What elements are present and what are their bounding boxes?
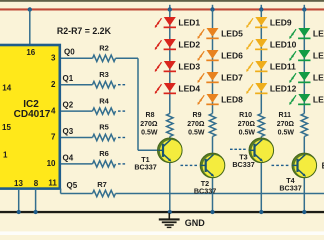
svg-text:0.5W: 0.5W <box>188 129 205 136</box>
wire IC2 pin 11 stub down <box>60 189 62 194</box>
svg-text:4: 4 <box>51 106 56 115</box>
resistor R3 <box>93 82 116 88</box>
svg-text:LED4: LED4 <box>178 84 200 94</box>
wire dotted base lead T2 <box>181 164 198 166</box>
wire resistor R10 to transistor T3 collector <box>260 137 262 139</box>
wire LED column 1 anode chain <box>169 10 171 114</box>
svg-text:2: 2 <box>51 80 56 89</box>
wire IC2 Q3 output <box>61 137 93 139</box>
node junction: LED column 4 to +V rail <box>302 7 306 11</box>
svg-text:14: 14 <box>2 84 11 93</box>
wire +V supply rail <box>0 8 324 10</box>
LED LED16 <box>289 94 310 105</box>
LED LED11 <box>246 61 267 72</box>
resistor R9 label block <box>187 112 205 136</box>
svg-text:LED2: LED2 <box>178 40 200 50</box>
resistor R11 label block <box>277 112 295 136</box>
resistor R6 <box>93 161 116 167</box>
wire IC2 Q2 output <box>61 110 93 112</box>
node junction pin8 on ground rail <box>34 210 38 214</box>
svg-text:LED3: LED3 <box>178 62 200 72</box>
svg-text:0.5W: 0.5W <box>239 129 256 136</box>
wire R6 continuation dots <box>118 163 125 165</box>
wire R2 to T1 base (horizontal) <box>116 57 139 59</box>
node junction T2 emitter on ground rail <box>210 210 214 214</box>
svg-text:BC337: BC337 <box>194 187 216 196</box>
transistor T3 BC337 <box>249 138 274 163</box>
svg-text:270Ω: 270Ω <box>238 121 256 128</box>
LED LED9 <box>246 17 267 28</box>
svg-text:LED15: LED15 <box>313 73 324 83</box>
svg-text:BC337: BC337 <box>134 162 156 171</box>
svg-text:Q1: Q1 <box>63 74 74 83</box>
svg-text:LED6: LED6 <box>221 51 243 61</box>
wire R7 to right edge <box>116 193 324 195</box>
wire Q0/R2 down to T1 base (vertical) <box>137 58 139 150</box>
svg-text:10: 10 <box>47 159 56 168</box>
svg-text:LED1: LED1 <box>178 18 200 28</box>
wire into T1 base <box>138 149 159 151</box>
wire stubs above supply rail <box>170 5 304 10</box>
svg-text:BC337: BC337 <box>279 183 301 192</box>
LED LED8 <box>198 94 219 105</box>
LED LED4 <box>155 83 176 94</box>
svg-text:LED11: LED11 <box>270 62 296 72</box>
svg-text:LED9: LED9 <box>270 18 292 28</box>
svg-text:8: 8 <box>34 179 39 188</box>
wire IC2 pin 13 to ground <box>18 189 20 212</box>
svg-text:Q0: Q0 <box>64 48 75 57</box>
ground symbol GND <box>159 213 180 227</box>
transistor T3 label <box>232 152 254 169</box>
wire IC2 Q1 output <box>61 84 93 86</box>
svg-text:11: 11 <box>48 178 57 187</box>
wire LED column 2 anode chain <box>212 10 214 114</box>
svg-text:0.5W: 0.5W <box>141 129 158 136</box>
svg-text:13: 13 <box>14 179 23 188</box>
node junction: LED column 3 to +V rail <box>259 7 263 11</box>
svg-text:LED8: LED8 <box>221 95 243 105</box>
resistor R10 <box>258 114 264 137</box>
resistor R9 <box>209 114 215 137</box>
resistor R10 label block <box>238 112 256 136</box>
wire transistor T4 emitter to ground rail <box>303 177 305 212</box>
svg-text:270Ω: 270Ω <box>277 121 295 128</box>
resistor R4 <box>93 108 116 114</box>
svg-text:0.5W: 0.5W <box>278 129 295 136</box>
svg-text:Q5: Q5 <box>67 181 78 190</box>
resistor R2 <box>93 55 116 61</box>
svg-text:LED7: LED7 <box>221 73 243 83</box>
resistor R5 <box>93 134 116 140</box>
wire Q5 to R7 <box>61 193 93 195</box>
wire IC2 pin 8 to ground <box>35 189 37 212</box>
LED LED3 <box>155 61 176 72</box>
wire ground rail <box>0 211 324 213</box>
svg-text:LED12: LED12 <box>270 84 297 94</box>
svg-text:16: 16 <box>26 48 35 57</box>
LED LED12 <box>246 83 267 94</box>
LED LED6 <box>198 50 219 61</box>
wire transistor T2 emitter to ground rail <box>212 177 214 212</box>
LED LED7 <box>198 72 219 83</box>
node junction T4 emitter on ground rail <box>302 210 306 214</box>
svg-text:R9: R9 <box>193 112 202 119</box>
svg-text:R10: R10 <box>239 112 252 119</box>
LED LED1 <box>155 17 176 28</box>
node junction pin13 on ground rail <box>17 210 21 214</box>
wire transistor T3 emitter to ground rail <box>260 162 262 212</box>
transistor T1 BC337 <box>158 138 183 163</box>
wire R5 continuation dots <box>118 137 125 139</box>
svg-text:LED5: LED5 <box>221 29 243 39</box>
transistor T2 BC337 <box>200 153 225 178</box>
svg-text:Q4: Q4 <box>63 153 74 162</box>
wire +V rail to IC2 pin 16 <box>29 10 31 46</box>
svg-text:LED13: LED13 <box>313 29 324 39</box>
wire dotted base lead T4 <box>272 164 289 166</box>
svg-text:R5: R5 <box>99 123 109 132</box>
resistor R7 <box>93 190 116 196</box>
node junction T1 emitter on ground rail <box>168 210 172 214</box>
wire LED column 4 anode chain <box>303 10 305 114</box>
LED LED5 <box>198 28 219 39</box>
svg-text:R6: R6 <box>99 149 109 158</box>
svg-text:Q2: Q2 <box>63 101 74 110</box>
LED LED15 <box>289 72 310 83</box>
svg-text:R2-R7 = 2.2K: R2-R7 = 2.2K <box>57 26 112 36</box>
svg-text:R3: R3 <box>99 70 109 79</box>
LED LED2 <box>155 39 176 50</box>
svg-text:270Ω: 270Ω <box>187 121 205 128</box>
resistor R11 <box>301 114 307 137</box>
wire IC2 Q0 output <box>61 57 93 59</box>
svg-text:CD4017: CD4017 <box>14 109 51 120</box>
svg-text:3: 3 <box>51 54 56 63</box>
svg-text:LED14: LED14 <box>313 51 324 61</box>
resistor R8 <box>167 114 173 137</box>
svg-text:LED16: LED16 <box>313 95 324 105</box>
svg-text:R11: R11 <box>279 112 292 119</box>
svg-text:LED10: LED10 <box>270 40 297 50</box>
node junction T3 emitter on ground rail <box>259 210 263 214</box>
IC IC2 CD4017 body <box>0 45 60 189</box>
svg-text:R7: R7 <box>97 180 107 189</box>
svg-text:Q3: Q3 <box>63 127 74 136</box>
svg-text:R4: R4 <box>99 96 109 105</box>
wire transistor T1 emitter to ground rail <box>169 162 171 212</box>
wire resistor R11 to transistor T4 collector <box>303 137 305 154</box>
wire R3 continuation dots <box>118 84 125 86</box>
transistor T4 BC337 <box>292 153 317 178</box>
wire LED column 3 anode chain <box>260 10 262 114</box>
wire dotted base lead T3 <box>230 148 246 150</box>
LED LED10 <box>246 39 267 50</box>
svg-text:R2: R2 <box>99 44 109 53</box>
transistor T1 label <box>134 155 156 172</box>
svg-text:R8: R8 <box>146 112 155 119</box>
svg-text:BC337: BC337 <box>232 160 254 169</box>
svg-text:1: 1 <box>3 151 8 160</box>
LED LED14 <box>289 50 310 61</box>
wire resistor R9 to transistor T2 collector <box>212 137 214 154</box>
wire resistor R8 to transistor T1 collector <box>169 137 171 139</box>
node junction: LED column 2 to +V rail <box>210 7 214 11</box>
svg-text:7: 7 <box>51 133 56 142</box>
resistor R8 label block <box>140 112 158 136</box>
svg-text:15: 15 <box>2 123 11 132</box>
svg-text:GND: GND <box>185 218 206 228</box>
transistor T4 label <box>279 176 301 192</box>
wire R4 continuation dots <box>118 110 125 112</box>
svg-text:270Ω: 270Ω <box>140 121 158 128</box>
node junction: LED column 1 to +V rail <box>168 7 172 11</box>
LED LED13 <box>289 28 310 39</box>
node junction: pin16 wire to +V rail <box>28 7 32 11</box>
wire IC2 Q4 output <box>61 163 93 165</box>
transistor T2 label <box>194 179 216 196</box>
